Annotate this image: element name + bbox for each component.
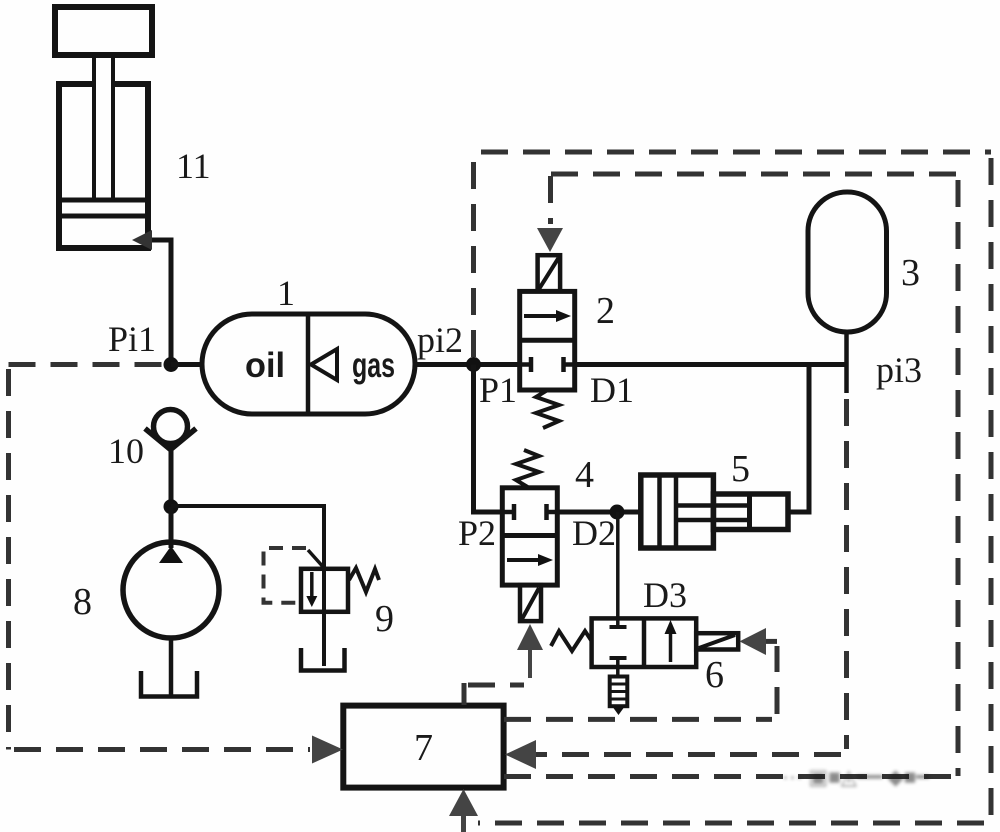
cylinder 11 piston plates [61,200,146,216]
svg-text:4: 4 [575,454,594,496]
valve 2 position divider [520,338,575,343]
valve 6 body [592,618,697,667]
valve 4 flow arrow lower box [507,558,542,562]
valve 6 control dashed line [504,717,772,722]
valve 4 port T marks [514,504,547,520]
svg-text:6: 6 [705,654,724,696]
svg-text:⋯ ▣■◬━━ ◆■━: ⋯ ▣■◬━━ ◆■━ [782,765,929,789]
check valve 10 seat chevron [145,429,196,450]
valve 6 spring [551,631,592,651]
svg-text:gas: gas [352,346,395,385]
valve 6 drain line [616,658,620,677]
valve 5 piston lines [660,475,677,548]
arrow into box 7 bottom [449,789,478,816]
relief valve 9 body [301,569,348,612]
valve 4 solenoid diagonal [522,588,539,619]
valve 2 control dashed line from controller loop [551,172,958,177]
valve 2 solenoid diagonal [539,258,559,289]
valve 6 position divider [642,618,647,667]
valve 5 end divider [747,494,752,530]
watermark [782,765,929,789]
svg-text:oil: oil [245,346,285,385]
valve 6 silencer tip [612,706,625,715]
valve 6 control arrow [740,628,767,655]
relief valve 9 pilot diagonal [308,550,325,569]
cylinder 11 inlet arrow [132,230,152,250]
svg-text:9: 9 [375,598,394,640]
svg-text:3: 3 [901,252,920,294]
node D2 [610,505,625,520]
cylinder 11 body [59,84,148,248]
wire check valve to branch node [169,444,174,507]
pump 8 triangle [159,546,183,563]
relief valve 9 pilot dashed box [264,548,307,603]
svg-text:5: 5 [731,448,750,490]
wire valve 2 D1 to pi3 junction [575,362,847,367]
dashed control lines [9,152,992,823]
pump 8 circle [123,542,219,638]
valve 4 control arrow [517,624,543,650]
left enclosure dashed box top [9,362,165,367]
valve 2 solenoid [538,255,561,291]
valve 4 position divider [502,533,557,538]
left enclosure dashed box left [6,369,11,750]
valve 5 end box [713,494,788,530]
valve 5 main box [641,475,714,548]
accumulator 1 gas triangle [311,349,337,380]
svg-text:2: 2 [596,290,615,332]
relief valve 9 tank [301,648,345,671]
wire accumulator 1 to node pi2 and valve 2 P1 [415,362,520,367]
valve 5 rod lines [676,506,748,521]
valve 6 flow arrow [669,632,673,662]
valve 2 port T marks [531,357,564,372]
svg-text:D3: D3 [643,575,687,615]
node pi2 [466,357,481,372]
cylinder 11 piston rod lines [94,55,113,200]
valve 6 silencer [610,677,628,707]
cylinder 11 top mass rectangle [55,7,152,55]
accumulator 3 capsule [808,192,887,332]
valve 6 solenoid diagonal [699,635,735,648]
svg-text:pi3: pi3 [876,350,922,390]
pump 8 suction line [169,638,174,695]
node Pi1 [164,357,179,372]
check valve 10 circle [154,410,188,444]
relief valve 9 drain line [322,569,326,666]
accumulator 1 divider [306,316,311,412]
pump 8 inlet line [169,507,174,548]
valve 6 top port T [610,625,627,629]
svg-text:P1: P1 [479,370,517,410]
valve 4 solenoid [520,585,541,621]
svg-text:pi2: pi2 [417,320,463,360]
valve 2 control arrow [537,228,563,252]
node pump branch [164,499,179,514]
svg-text:D2: D2 [572,513,616,553]
svg-text:P2: P2 [458,513,496,553]
valve 6 solenoid [696,633,738,649]
svg-text:8: 8 [73,581,92,623]
valve 6 bottom port T [610,656,627,660]
wire branch to relief valve 9 [171,506,324,569]
valve 2 flow arrow upper box [524,314,560,318]
controller box 7 [343,706,503,788]
pi2 sensor dashed loop up and around [471,152,476,357]
accumulator 1 capsule [202,314,415,414]
svg-text:1: 1 [277,273,295,313]
relief valve 9 internal arrow [310,572,314,599]
wire valve 6 control corner [766,639,777,644]
svg-text:Pi1: Pi1 [108,319,156,359]
svg-text:7: 7 [414,727,433,769]
svg-text:D1: D1 [590,370,634,410]
valve 2 spring [536,390,559,428]
arrow into box 7 right from pi3 [505,740,536,769]
valve 4 control dashed line [462,683,467,705]
valve 2 body [520,291,575,390]
wire pi3 junction down to valve 5 right port [788,365,809,513]
pi3 sensor dashed line [844,399,849,749]
left enclosure dashed box bottom [14,747,310,752]
svg-text:10: 10 [108,431,144,471]
pump 8 tank [141,671,197,697]
arrow into box 7 left [312,736,343,764]
valve 4 body [502,488,557,585]
cylinder 11 inlet wire [150,240,171,362]
svg-text:11: 11 [176,146,211,186]
wire node D2 down to valve 6 [616,512,620,627]
wire valve 4 D2 to node D2 to valve 5 [557,510,641,515]
valve 4 spring [516,450,539,487]
wire pi2 node down to valve 4 P2 [474,365,503,513]
wire Pi1 to accumulator 1 [171,362,202,367]
accumulator 3 stem [844,332,849,393]
relief valve 9 spring [349,568,379,592]
